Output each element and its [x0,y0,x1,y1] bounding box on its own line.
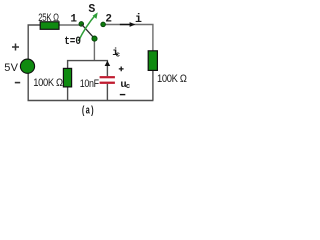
wire node 2 to top-right corner and down to R2 [105,25,153,52]
svg-text:i: i [135,13,142,26]
switch throw arrow [79,14,96,41]
wire R1 to node 1 [59,24,80,26]
wire junction horizontal R3 top to capacitor top [68,61,108,77]
node 1 dot [79,22,84,27]
svg-text:(a): (a) [81,105,95,117]
svg-text:2: 2 [105,14,112,26]
resistor R1 25K [40,22,59,30]
source polarity - [15,82,20,84]
svg-text:t=0: t=0 [64,36,81,48]
wire switch contact down to junction [93,41,95,61]
wire left vertical below source [27,73,29,100]
svg-text:c: c [126,83,131,91]
svg-text:1: 1 [70,14,77,26]
capacitor polarity - [120,94,126,96]
svg-text:S: S [88,3,95,16]
voltage source V1 5V [20,59,34,73]
wire capacitor bottom lead [106,84,108,101]
capacitor polarity + [119,67,124,72]
wire bottom [28,100,154,102]
svg-text:100K Ω: 100K Ω [33,77,63,89]
svg-text:c: c [116,52,121,60]
switch middle contact dot [92,36,97,41]
source polarity + [12,44,19,51]
capacitor current arrow head (up) [105,61,111,66]
switch S blade [82,24,95,38]
wire R3 bottom lead [67,87,69,101]
node 2 dot [101,22,106,27]
svg-text:5V: 5V [4,62,18,74]
wire left branch: left vertical + top segment to R1 [28,25,41,59]
resistor R3 100K (middle) [63,68,71,87]
svg-text:100K Ω: 100K Ω [157,73,187,85]
svg-text:25K Ω: 25K Ω [38,12,59,24]
current arrow i on top wire [120,24,131,26]
resistor R2 100K (right) [148,51,157,71]
svg-text:10nF: 10nF [80,78,100,90]
capacitor C1 plates [100,76,115,78]
wire right vertical below R2 [152,70,154,100]
